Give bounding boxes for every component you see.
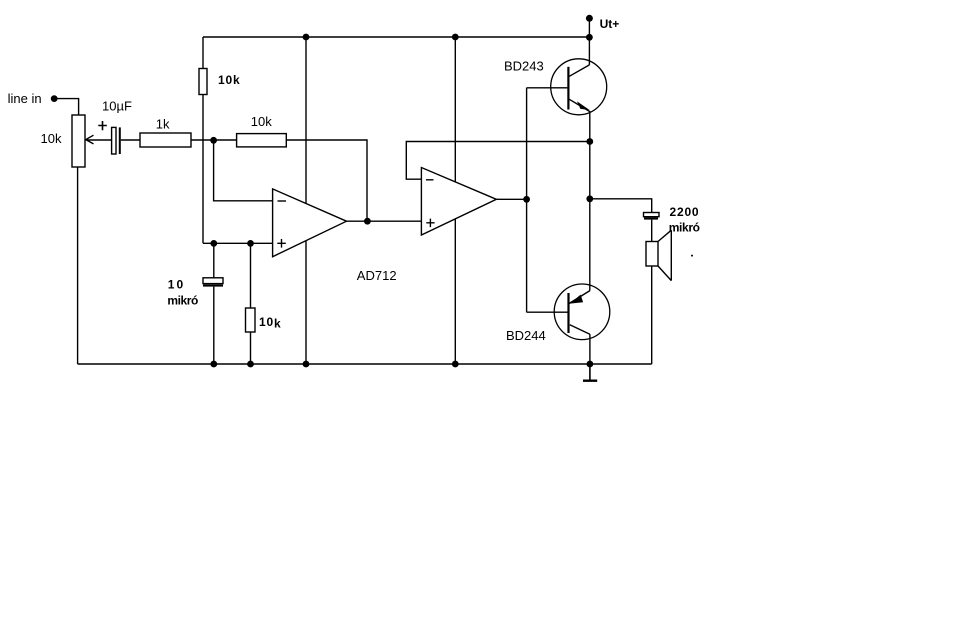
svg-text:Ut+: Ut+	[600, 17, 620, 31]
svg-text:10µF: 10µF	[102, 99, 132, 114]
label plus polarity	[98, 121, 107, 130]
capacitor 10uF plus plate	[112, 127, 116, 154]
capacitor 10uF minus plate	[119, 127, 121, 154]
svg-text:mikró: mikró	[167, 294, 198, 308]
wire emitter vertical BD243 to BD244	[589, 112, 591, 291]
wire mid vertical x455 top bus to ground bus	[454, 37, 456, 364]
wire plus input horizontal	[203, 242, 273, 244]
node ground bus cap junction	[210, 361, 217, 368]
label 1k	[156, 116, 170, 131]
label 2200 bold	[670, 205, 700, 219]
svg-text:10k: 10k	[218, 73, 240, 87]
label 10k feedback	[251, 114, 272, 129]
label mikro 2200 bold	[669, 221, 700, 235]
wire supply stub	[588, 18, 590, 37]
wire from resistor down to opamp plus input	[202, 95, 204, 244]
svg-text:10k: 10k	[41, 131, 62, 146]
node emitter feedback junction	[586, 138, 593, 145]
potentiometer 10k	[72, 115, 85, 167]
capacitor 2200 mikro top plate	[644, 213, 660, 217]
node ground bus resistor junction	[247, 361, 254, 368]
node stray dot	[691, 255, 693, 257]
node ground bus x455	[452, 361, 459, 368]
op-amp U1B AD712 second stage	[421, 168, 496, 236]
node speaker branch junction	[586, 195, 593, 202]
label AD712	[357, 268, 397, 283]
svg-text:2200: 2200	[670, 205, 700, 219]
resistor 10k vertical top	[199, 69, 207, 95]
svg-text:1k: 1k	[156, 116, 170, 131]
wire base BD243	[527, 87, 568, 89]
svg-text:line in: line in	[8, 91, 42, 106]
wire speaker to ground bus	[651, 266, 653, 364]
wire op2 feedback from emitters to minus input	[406, 142, 590, 180]
svg-text:AD712: AD712	[357, 268, 397, 283]
resistor 10k to ground	[246, 308, 256, 332]
capacitor 2200 mikro bottom plate	[644, 217, 658, 219]
wire BD243 collector to top bus	[588, 37, 590, 65]
node junction top bus x455	[452, 34, 459, 41]
ground symbol	[583, 364, 597, 381]
wire junction down to minus input	[214, 140, 273, 201]
label 10 bold	[168, 278, 185, 292]
node plus wire resistor junction	[247, 240, 254, 247]
node line in terminal	[51, 95, 58, 102]
label Ut+	[600, 17, 620, 31]
label 10uF	[102, 99, 132, 114]
node ground junction	[587, 361, 594, 368]
capacitor 10 mikro bottom plate	[203, 284, 223, 286]
wire top supply bus	[203, 36, 589, 38]
svg-text:10k: 10k	[251, 114, 272, 129]
node plus wire cap junction	[210, 240, 217, 247]
wire resistor branch	[250, 243, 252, 364]
label 10k bottom bold	[259, 315, 281, 331]
label 10k top bold	[218, 73, 240, 87]
resistor 1k	[140, 133, 191, 147]
node supply terminal Ut+	[586, 15, 593, 22]
node junction input	[210, 137, 217, 144]
wire base drive vertical	[526, 88, 528, 312]
wire line in to pot	[54, 99, 78, 115]
label line in	[8, 91, 42, 106]
svg-text:BD243: BD243	[504, 58, 544, 73]
label mikro bold	[167, 294, 198, 308]
wire op1 output to op2 plus input	[347, 220, 422, 222]
wire base BD244	[527, 311, 569, 313]
transistor Q1 BD243	[551, 59, 607, 115]
wire left drop from top bus	[202, 37, 204, 69]
node op2 output junction	[523, 196, 530, 203]
svg-text:10: 10	[168, 278, 185, 292]
svg-text:mikró: mikró	[669, 221, 700, 235]
svg-text:BD244: BD244	[506, 328, 546, 343]
label 10k potentiometer	[41, 131, 62, 146]
wiper arrow of potentiometer	[86, 135, 112, 144]
wire cap branch	[213, 243, 215, 364]
node ground bus x306	[303, 361, 310, 368]
wire bottom ground bus	[78, 363, 652, 365]
node junction top bus x306	[303, 34, 310, 41]
resistor 10k feedback	[237, 134, 287, 147]
node top bus supply junction	[586, 34, 593, 41]
wire cap to 1k resistor	[121, 139, 140, 141]
wire mid vertical x306 top bus to ground bus	[305, 37, 307, 364]
wire feedback resistor to output	[286, 140, 367, 221]
wire BD244 collector to ground bus	[589, 334, 591, 364]
label BD243	[504, 58, 544, 73]
wire pot bottom to ground bus	[77, 167, 79, 364]
wire 1k to junction	[191, 139, 237, 141]
node op1 output junction	[364, 218, 371, 225]
wire cap to speaker	[651, 220, 653, 242]
wire output to speaker cap	[590, 199, 652, 213]
wire op2 output	[496, 198, 526, 200]
label BD244	[506, 328, 546, 343]
op-amp U1A AD712 first stage	[273, 189, 347, 257]
svg-text:10k: 10k	[259, 315, 281, 331]
speaker LS1	[646, 230, 671, 280]
capacitor 10 mikro top plate	[203, 278, 223, 284]
transistor Q2 BD244	[554, 284, 610, 340]
